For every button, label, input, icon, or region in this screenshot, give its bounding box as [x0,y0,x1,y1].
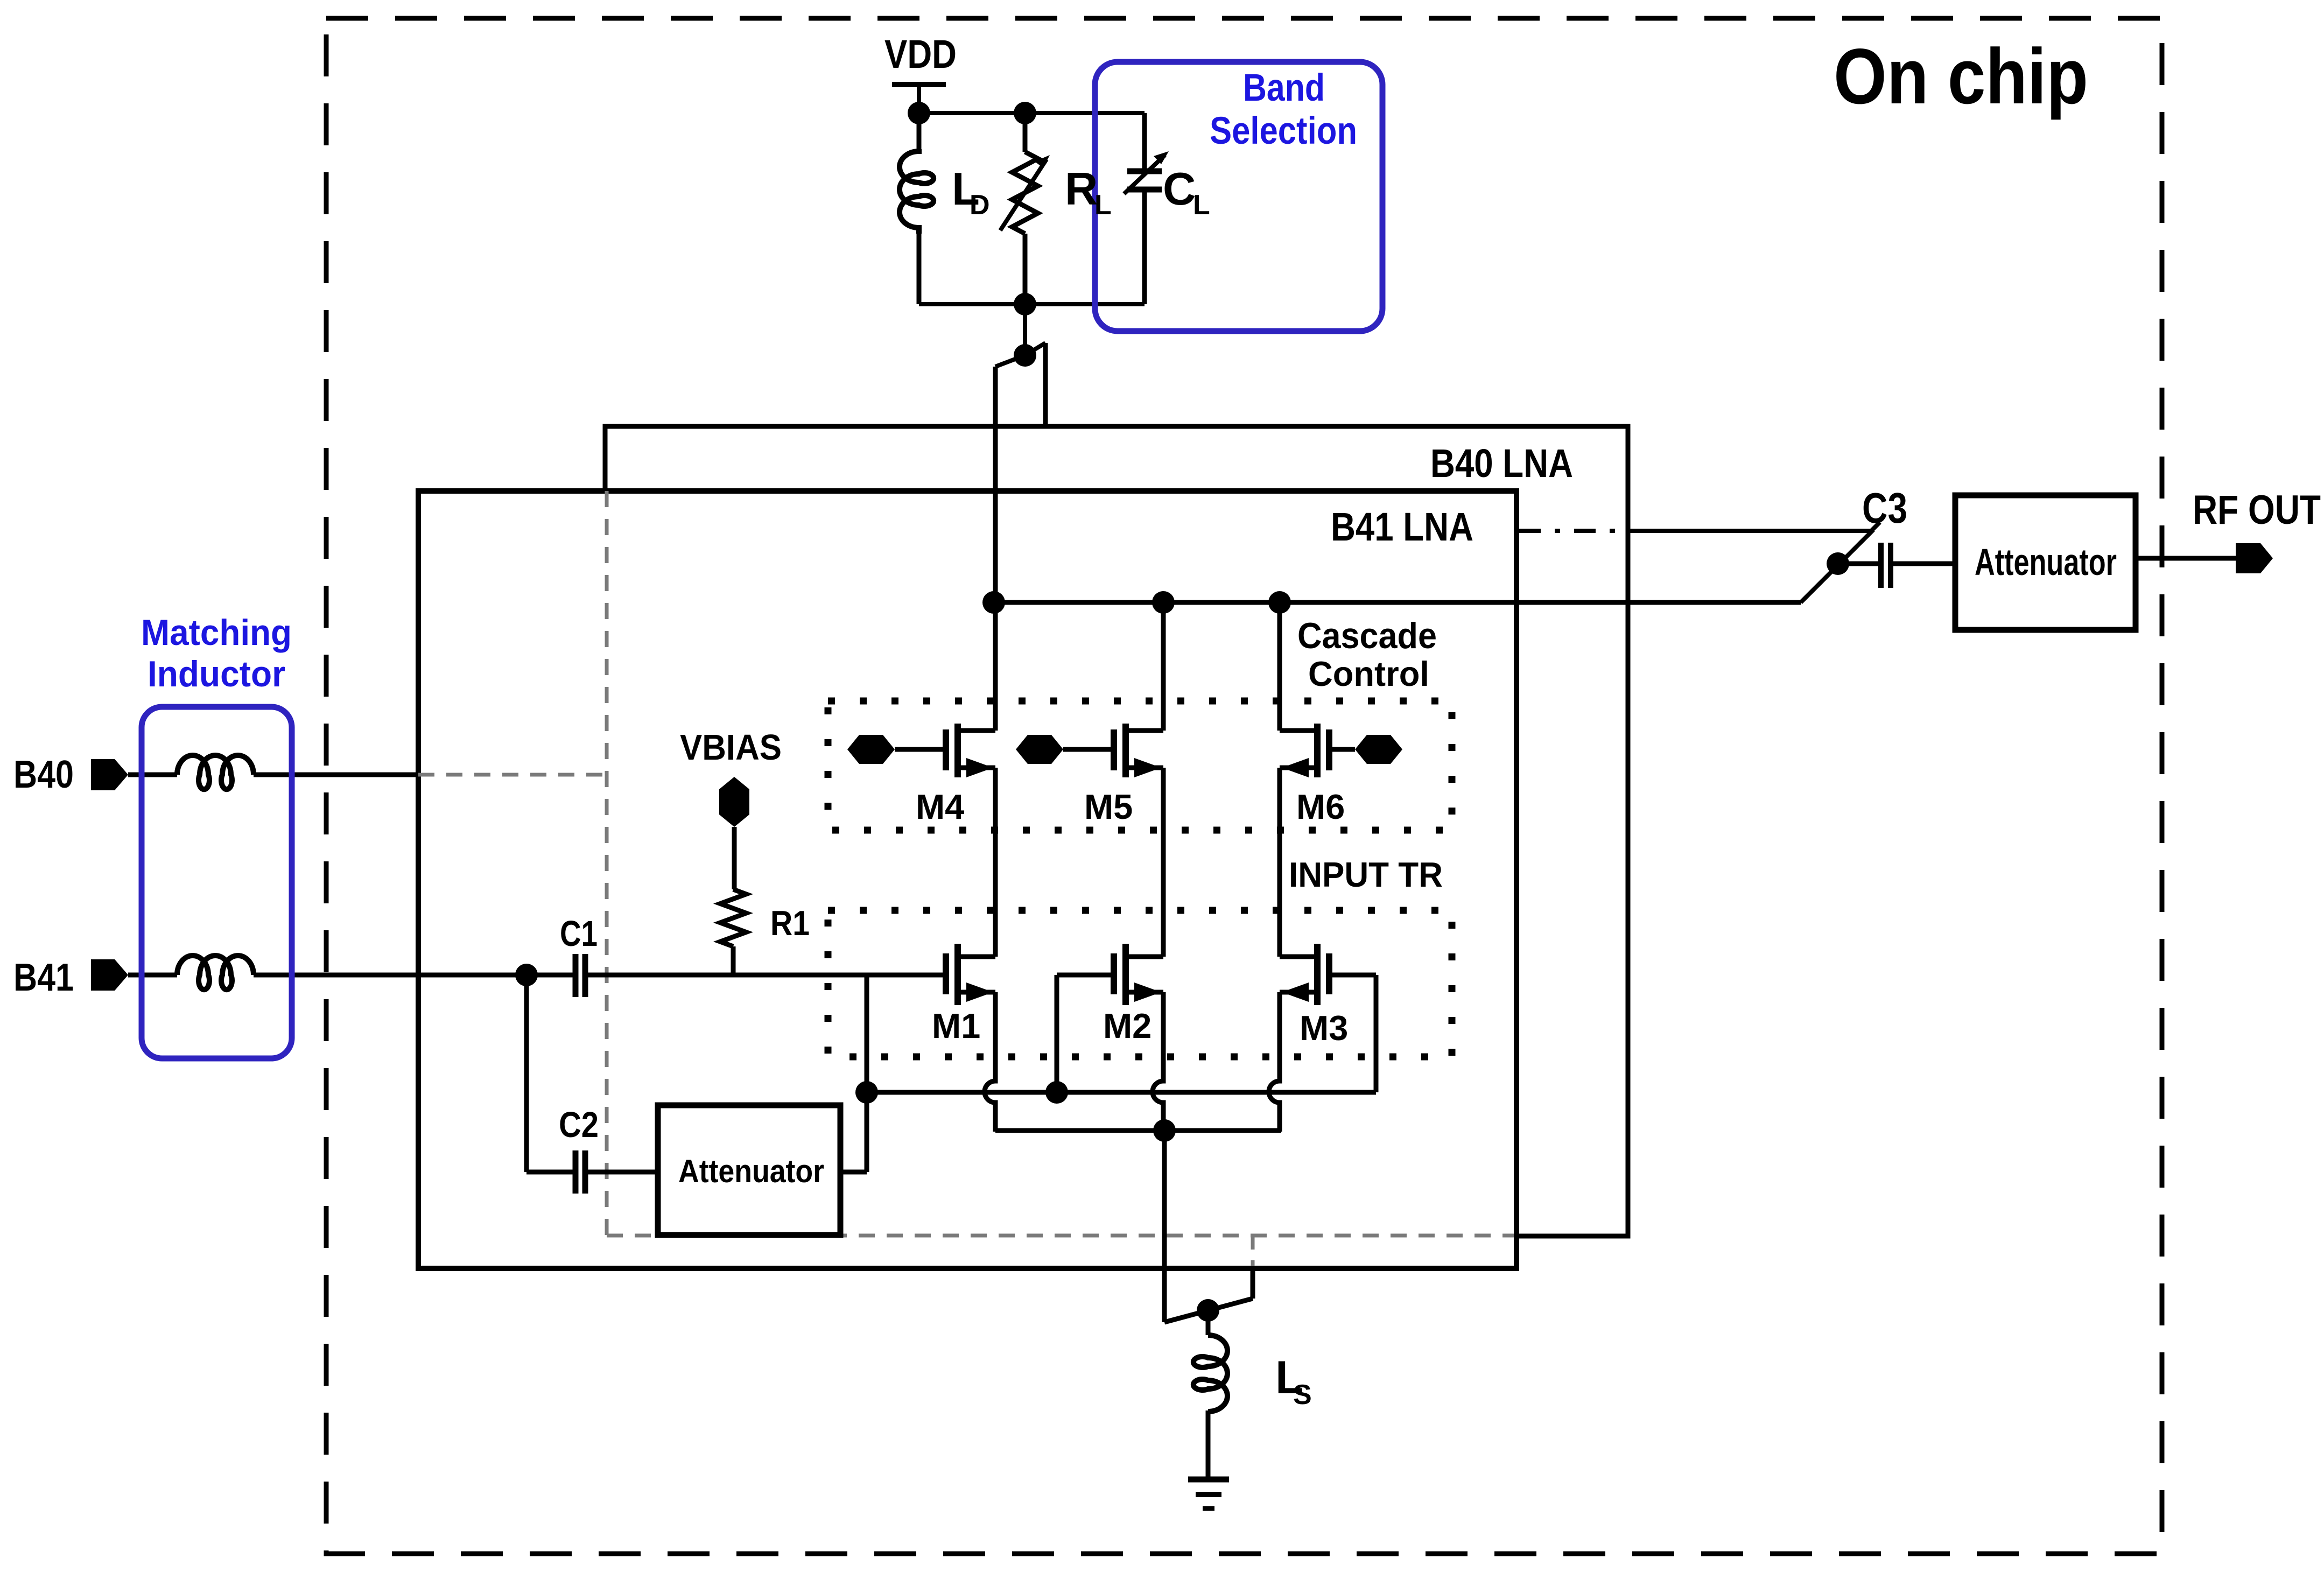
svg-text:Attenuator: Attenuator [678,1153,824,1189]
svg-text:Selection: Selection [1210,110,1357,152]
svg-text:M2: M2 [1103,1006,1152,1045]
svg-text:D: D [970,190,990,221]
svg-text:Matching: Matching [141,612,292,653]
svg-text:B41 LNA: B41 LNA [1331,504,1473,549]
svg-text:C2: C2 [559,1105,599,1145]
svg-text:C: C [1163,164,1196,215]
svg-text:Inductor: Inductor [148,654,285,694]
svg-text:M5: M5 [1084,787,1133,826]
svg-text:VBIAS: VBIAS [680,727,782,768]
svg-text:Attenuator: Attenuator [1975,541,2117,583]
svg-text:M4: M4 [916,787,964,826]
svg-text:L: L [1094,190,1112,221]
svg-text:INPUT TR: INPUT TR [1289,855,1443,894]
svg-text:C3: C3 [1862,484,1907,532]
svg-text:On chip: On chip [1834,32,2088,120]
svg-text:Cascade: Cascade [1297,615,1437,656]
svg-text:B41: B41 [13,956,74,999]
svg-text:B40: B40 [13,753,74,796]
svg-text:Control: Control [1308,654,1429,693]
svg-text:M3: M3 [1300,1008,1348,1048]
svg-text:C1: C1 [560,914,598,954]
svg-text:L: L [1193,190,1210,221]
svg-text:RF OUT: RF OUT [2193,487,2321,533]
svg-text:S: S [1293,1379,1312,1410]
svg-text:B40 LNA: B40 LNA [1430,441,1573,486]
svg-text:VDD: VDD [884,32,957,76]
svg-text:R1: R1 [770,903,810,943]
svg-text:Band: Band [1243,67,1325,109]
svg-text:R: R [1065,164,1098,215]
svg-text:M1: M1 [932,1006,980,1045]
svg-text:M6: M6 [1296,787,1345,826]
